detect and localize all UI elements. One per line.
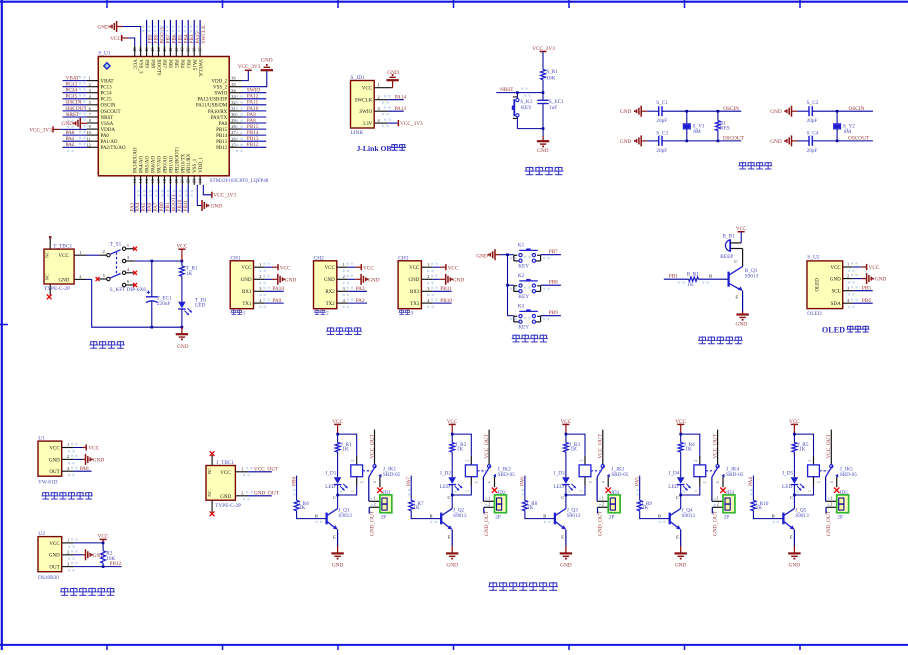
svg-text:2: 2 (79, 274, 81, 279)
power GND at S_U2 pin2 (853, 273, 887, 284)
svg-text:PA2: PA2 (66, 142, 75, 148)
svg-text:SWIO: SWIO (247, 88, 261, 94)
svg-text:VCC: VCC (59, 254, 70, 259)
svg-text:2P: 2P (609, 514, 615, 520)
svg-text:SWIO: SWIO (214, 92, 227, 97)
svg-text:J-Link OB: J-Link OB (357, 144, 392, 153)
svg-text:SWCLK: SWCLK (201, 25, 207, 44)
svg-text:PA8: PA8 (247, 118, 256, 124)
svg-text:29: 29 (231, 118, 235, 123)
svg-text:S_C4: S_C4 (807, 130, 819, 136)
svg-text:T_S1: T_S1 (110, 242, 122, 248)
svg-text:3: 3 (427, 286, 429, 291)
svg-text:K2: K2 (518, 273, 525, 279)
svg-text:VCC: VCC (88, 446, 99, 452)
wire power bottom rail (74, 279, 183, 328)
power VCC_3V3 at S_JD1 pin 4 (382, 119, 423, 128)
relay switch contacts J_JK4 (704, 430, 725, 488)
svg-text:2: 2 (466, 460, 470, 462)
svg-text:PB10: PB10 (440, 298, 452, 304)
wire switch out to VCC rail (135, 260, 184, 263)
wire relay JD5 top node (793, 433, 813, 456)
svg-text:JD4: JD4 (726, 490, 735, 496)
svg-text:LED: LED (554, 484, 564, 490)
svg-text:GND: GND (387, 70, 399, 76)
svg-text:S_C2: S_C2 (807, 100, 819, 106)
title power circuit (90, 341, 97, 343)
svg-text:8M: 8M (693, 129, 701, 135)
svg-text:PB11: PB11 (440, 286, 452, 292)
transistor J_Q4 S9013 (670, 495, 696, 546)
svg-text:12: 12 (87, 142, 91, 147)
svg-text:2: 2 (259, 274, 261, 279)
transistor J_Q2 S9013 (441, 495, 467, 546)
svg-text:1: 1 (67, 442, 69, 447)
svg-text:GND: GND (453, 277, 465, 283)
svg-text:PA10: PA10 (272, 286, 284, 292)
svg-text:LED: LED (325, 484, 335, 490)
ground GND relay JD3 (560, 546, 572, 568)
led J_D3 (554, 470, 577, 495)
transistor J_Q5 S9013 (783, 495, 809, 546)
resistor J_R2 1K (450, 442, 467, 477)
svg-text:GND: GND (368, 277, 380, 283)
svg-text:S_JD1: S_JD1 (351, 75, 366, 81)
svg-text:42: 42 (168, 48, 173, 52)
label serial port 2 (314, 310, 329, 317)
svg-text:TYPE-C-2P: TYPE-C-2P (44, 286, 70, 292)
svg-text:GND_OUT: GND_OUT (598, 510, 604, 536)
svg-text:GND: GND (476, 253, 488, 259)
capacitor T_EC1 220uF electrolytic (146, 261, 172, 327)
wire connector JD5 pin2 GND_OUT (826, 507, 837, 513)
svg-text:OUT: OUT (49, 470, 59, 475)
svg-text:GND: GND (211, 204, 223, 210)
svg-text:VDD_1: VDD_1 (199, 157, 204, 173)
svg-text:3: 3 (89, 88, 91, 93)
power VCC power circuit (176, 244, 187, 262)
wire CH3 pin4 PB10 (433, 298, 453, 304)
svg-text:SWCLK: SWCLK (197, 59, 202, 77)
power GND at CH3 pin2 (433, 274, 465, 285)
svg-text:5: 5 (817, 481, 821, 483)
svg-text:GND: GND (770, 139, 782, 145)
no-connect X at relay J_JK3 NC contact (606, 488, 611, 493)
svg-text:5: 5 (103, 273, 105, 278)
power VCC_3V3 at mcu pin 36 VDD_2 (238, 64, 261, 81)
svg-text:2: 2 (351, 460, 355, 462)
svg-text:DS18B20: DS18B20 (38, 575, 59, 581)
connector S_JD1 J-Link body (351, 75, 393, 136)
svg-text:PA5/AO: PA5/AO (146, 155, 151, 172)
svg-text:S_K1: S_K1 (520, 99, 532, 105)
svg-text:PB8: PB8 (149, 59, 154, 68)
svg-text:VCC_OUT: VCC_OUT (254, 466, 279, 472)
svg-text:PB0/AO: PB0/AO (163, 155, 168, 173)
resistor J_R9 1K base (637, 476, 669, 519)
svg-text:2: 2 (67, 454, 69, 459)
connector CH3 body (398, 255, 438, 308)
svg-text:20pF: 20pF (807, 118, 818, 124)
svg-text:1K: 1K (342, 446, 349, 452)
svg-text:GND: GND (49, 458, 60, 463)
svg-text:GND_OUT: GND_OUT (254, 490, 280, 496)
svg-text:2P: 2P (495, 514, 501, 520)
svg-text:23: 23 (192, 179, 197, 183)
svg-text:1: 1 (808, 490, 812, 492)
svg-text:1: 1 (243, 310, 246, 316)
svg-text:S_U2: S_U2 (807, 255, 820, 261)
svg-text:2P: 2P (724, 514, 730, 520)
led J_D2 (440, 470, 463, 495)
svg-text:B: B (709, 274, 712, 279)
svg-text:YW-81D: YW-81D (38, 479, 58, 485)
svg-text:5: 5 (704, 481, 708, 483)
wire J_TBC1 pin2 GND_OUT (235, 490, 279, 496)
svg-text:GND: GND (97, 25, 109, 31)
svg-text:PA6: PA6 (520, 477, 526, 486)
svg-text:1K: 1K (685, 446, 692, 452)
resistor J_R7 1K base (409, 476, 441, 519)
svg-text:1: 1 (67, 538, 69, 543)
svg-text:SRD-05: SRD-05 (383, 472, 401, 478)
transistor J_Q1 S9013 (327, 495, 353, 546)
resistor R2 10K pull-up (101, 543, 116, 567)
svg-text:PA8: PA8 (80, 466, 89, 472)
svg-text:RES: RES (720, 126, 730, 132)
svg-text:VCC: VCC (448, 265, 459, 271)
svg-text:JD2: JD2 (497, 490, 506, 496)
svg-text:B: B (430, 514, 433, 519)
svg-text:B: B (772, 514, 775, 519)
svg-text:NC: NC (45, 274, 50, 280)
resistor B_R1 1K (678, 272, 728, 289)
svg-text:19: 19 (168, 179, 173, 183)
svg-text:S9013: S9013 (682, 513, 696, 519)
wire U1 pin3 PA8 (74, 466, 92, 472)
svg-text:GND: GND (560, 562, 572, 568)
power GND S_C2 top (770, 106, 797, 117)
power VCC_3V3 reset circuit (532, 46, 555, 69)
power VCC relay JD2 (447, 419, 458, 434)
svg-text:2: 2 (808, 460, 812, 462)
svg-text:1: 1 (830, 495, 832, 500)
svg-text:PC14: PC14 (101, 92, 113, 97)
svg-text:48: 48 (132, 48, 137, 52)
svg-text:3: 3 (259, 286, 261, 291)
svg-text:PB4: PB4 (179, 59, 184, 68)
no-connect X at relay J_JK2 NC contact (492, 488, 497, 493)
svg-text:1: 1 (579, 490, 583, 492)
svg-text:VCC: VCC (98, 533, 109, 539)
svg-text:C: C (790, 495, 793, 500)
wire relay JD3 top node (565, 433, 585, 456)
svg-text:22: 22 (186, 179, 191, 183)
ground GND relay JD4 (675, 546, 687, 568)
relay coil J_JK4 SRD-05 (679, 456, 743, 497)
capacitor S_C1 20pF (647, 100, 687, 124)
svg-text:OSCOUT: OSCOUT (66, 106, 88, 112)
svg-text:OLED: OLED (822, 326, 845, 335)
wire OSCIN (836, 106, 873, 113)
svg-text:GND_OUT: GND_OUT (712, 510, 718, 536)
relay switch contacts J_JK3 (589, 430, 610, 488)
wire relay common to connector JD2 (483, 477, 494, 501)
wire relay JD4 top node (679, 433, 699, 456)
svg-text:43: 43 (162, 48, 167, 52)
svg-text:2: 2 (67, 550, 69, 555)
svg-text:GND: GND (789, 562, 801, 568)
svg-text:5: 5 (475, 481, 479, 483)
power VCC_3V3 at mcu pin 24 VDD_1 (203, 185, 236, 199)
key K2 KEY (508, 273, 541, 300)
svg-text:1: 1 (466, 490, 470, 492)
svg-text:4: 4 (830, 481, 834, 483)
svg-text:1K: 1K (413, 505, 420, 511)
svg-text:OSCIN: OSCIN (849, 106, 865, 112)
connector J_TBC1 TYPE-C body (206, 455, 253, 513)
svg-text:J_TBC1: J_TBC1 (216, 460, 234, 466)
svg-text:4: 4 (601, 481, 605, 483)
svg-text:GND: GND (736, 322, 748, 328)
relay coil J_JK3 SRD-05 (565, 456, 629, 497)
svg-text:VCC_3V3: VCC_3V3 (213, 193, 236, 199)
svg-text:PB2/BOOT1: PB2/BOOT1 (175, 146, 180, 173)
svg-text:1K: 1K (642, 505, 649, 511)
svg-text:OLED: OLED (807, 311, 821, 317)
svg-text:1: 1 (89, 76, 91, 81)
title temperature module (61, 587, 69, 589)
svg-text:1K: 1K (457, 446, 464, 452)
svg-text:45: 45 (150, 48, 155, 52)
resistor R1 RES (716, 110, 730, 142)
svg-text:40: 40 (180, 48, 185, 52)
svg-text:S_KFT DIP-6X6: S_KFT DIP-6X6 (110, 287, 147, 293)
svg-text:VSS_3: VSS_3 (137, 59, 142, 74)
svg-text:1: 1 (378, 83, 380, 88)
svg-text:33: 33 (231, 94, 235, 99)
crystal S_Y2 8M (833, 111, 855, 141)
svg-text:1: 1 (79, 250, 81, 255)
svg-text:S9013: S9013 (795, 513, 809, 519)
svg-text:SDA: SDA (831, 302, 841, 307)
title liquid level module (42, 492, 49, 494)
svg-text:PB7: PB7 (549, 249, 558, 255)
svg-text:RX3: RX3 (410, 290, 420, 295)
wire J_TBC1 pin1 VCC_OUT (235, 466, 279, 472)
svg-text:PB12: PB12 (110, 561, 122, 567)
svg-text:OUT: OUT (49, 566, 59, 571)
svg-text:1: 1 (343, 262, 345, 267)
svg-text:2: 2 (717, 501, 719, 506)
svg-text:TX1: TX1 (242, 302, 252, 307)
svg-text:KEY: KEY (518, 264, 529, 270)
power GND key circuit (476, 249, 507, 260)
svg-text:PA10/RX: PA10/RX (208, 110, 228, 115)
svg-text:B_B1: B_B1 (722, 234, 735, 240)
svg-text:VCC: VCC (220, 471, 231, 476)
key K1 KEY (508, 243, 541, 270)
svg-text:KEY: KEY (521, 105, 532, 111)
svg-text:C: C (561, 495, 564, 500)
svg-text:PB11/RX: PB11/RX (187, 153, 192, 173)
svg-text:1: 1 (717, 495, 719, 500)
resistor J_R10 1K base (751, 476, 783, 519)
svg-text:1: 1 (241, 466, 243, 471)
svg-text:PA6/AO: PA6/AO (152, 155, 157, 172)
svg-text:TX2: TX2 (326, 302, 336, 307)
power GND at CH1 pin2 (265, 274, 297, 285)
svg-text:1: 1 (127, 243, 129, 248)
svg-text:11: 11 (87, 136, 91, 141)
resistor J_R4 1K (678, 442, 695, 477)
wire key K2 to PB8 (510, 279, 561, 290)
svg-text:TX3: TX3 (410, 302, 420, 307)
svg-text:PA2: PA2 (356, 298, 365, 304)
svg-text:K3: K3 (518, 304, 525, 310)
svg-text:1K: 1K (299, 505, 306, 511)
svg-text:U1: U1 (38, 436, 45, 442)
power GND S_C4 bottom (770, 135, 797, 146)
svg-text:20pF: 20pF (656, 118, 667, 124)
crystal S_V1 8M (683, 111, 705, 141)
ground GND power circuit (176, 327, 189, 350)
capacitor S_C4 20pF (798, 130, 838, 154)
svg-text:JD1: JD1 (383, 490, 392, 496)
svg-text:2: 2 (378, 95, 380, 100)
svg-text:PB7: PB7 (161, 59, 166, 68)
svg-text:GND: GND (332, 562, 344, 568)
wire connector JD1 pin2 GND_OUT (369, 507, 380, 513)
svg-text:PA12/USB/DP: PA12/USB/DP (197, 98, 227, 103)
svg-text:2: 2 (427, 274, 429, 279)
resistor J_R5 1K (792, 442, 809, 477)
capacitor S_C2 20pF (798, 100, 838, 124)
svg-text:OSCIN: OSCIN (101, 104, 116, 109)
capacitor S_EC1 1uF (537, 93, 564, 129)
no-connect X at relay J_JK4 NC contact (720, 488, 725, 493)
svg-text:GND: GND (261, 58, 273, 64)
power VCC relay JD5 (789, 419, 800, 434)
svg-text:PC14: PC14 (66, 88, 78, 94)
svg-text:1: 1 (351, 490, 355, 492)
svg-text:VCC: VCC (49, 446, 60, 451)
wire S_U2 pin4 PB6 (853, 298, 873, 304)
svg-text:VCC: VCC (241, 266, 252, 271)
svg-text:PB12: PB12 (216, 146, 228, 151)
title key circuit (512, 334, 519, 336)
svg-text:VCC_3V3: VCC_3V3 (238, 64, 261, 70)
svg-text:39: 39 (186, 48, 191, 52)
svg-text:32: 32 (231, 100, 235, 105)
svg-text:2: 2 (374, 501, 376, 506)
wire CH2 pin3 PA3 (348, 286, 367, 292)
svg-text:15: 15 (144, 179, 149, 183)
svg-text:1K: 1K (687, 282, 694, 288)
svg-text:LED: LED (195, 303, 205, 309)
power VCC relay JD1 (332, 419, 343, 434)
svg-text:21: 21 (180, 179, 185, 183)
svg-text:T_TBC1: T_TBC1 (53, 244, 72, 250)
svg-text:1K: 1K (571, 446, 578, 452)
svg-text:S9013: S9013 (338, 513, 352, 519)
svg-text:PA5: PA5 (634, 477, 640, 486)
svg-text:GND_OUT: GND_OUT (826, 510, 832, 536)
power VCC at U2 pin1 (74, 533, 109, 544)
wire relay JD1 top node (336, 433, 356, 456)
led J_D4 (668, 470, 691, 495)
svg-text:5: 5 (589, 481, 593, 483)
svg-text:S_U1: S_U1 (98, 51, 111, 57)
svg-text:KEY: KEY (518, 294, 529, 300)
title serial circuit (327, 327, 334, 329)
wire PB1 input (664, 274, 689, 280)
power VCC_3V3 at mcu pin 9 VDDA (29, 126, 87, 133)
svg-text:VCC_3V3: VCC_3V3 (29, 127, 52, 133)
svg-text:PB6: PB6 (862, 298, 871, 304)
svg-text:PA7: PA7 (406, 477, 412, 486)
svg-text:PA4/AO: PA4/AO (140, 155, 145, 172)
svg-text:GND_OUT: GND_OUT (369, 510, 375, 536)
svg-text:GND: GND (770, 109, 782, 115)
svg-text:PA1: PA1 (66, 136, 75, 142)
wire OSCOUT (836, 136, 873, 143)
relay switch contacts J_JK2 (475, 430, 496, 488)
svg-text:VSS_1: VSS_1 (193, 158, 198, 173)
connector CH1 body (230, 255, 270, 308)
svg-text:C: C (734, 259, 737, 264)
svg-text:PA7/AO: PA7/AO (158, 155, 163, 172)
svg-text:2: 2 (326, 310, 329, 316)
svg-text:4: 4 (716, 481, 720, 483)
no-connect X at relay J_JK5 NC contact (834, 488, 839, 493)
svg-text:LED: LED (668, 484, 678, 490)
svg-text:NC: NC (207, 468, 212, 474)
svg-text:VCC: VCC (132, 59, 137, 70)
svg-text:PB5: PB5 (862, 285, 871, 291)
svg-text:E: E (676, 534, 679, 539)
wire CH3 pin3 PB11 (433, 286, 452, 292)
svg-text:SRD-05: SRD-05 (498, 472, 516, 478)
svg-text:2P: 2P (837, 514, 843, 520)
svg-text:PB8: PB8 (549, 279, 558, 285)
svg-text:PA14: PA14 (395, 94, 407, 100)
svg-text:1: 1 (847, 262, 849, 267)
svg-text:PA0: PA0 (101, 134, 110, 139)
svg-text:1K: 1K (527, 505, 534, 511)
svg-text:S9013: S9013 (567, 513, 581, 519)
svg-text:E: E (561, 534, 564, 539)
svg-text:8: 8 (89, 118, 91, 123)
svg-text:E: E (448, 534, 451, 539)
svg-text:3: 3 (127, 255, 129, 260)
transistor B_Q1 S9013 (729, 249, 759, 312)
wire relay JD2 top node (451, 433, 471, 456)
svg-text:9: 9 (89, 124, 91, 129)
svg-text:3: 3 (378, 106, 380, 111)
svg-text:PA4: PA4 (748, 477, 754, 486)
connector S_U2 OLED body (807, 255, 858, 317)
resistor S_R1 10K (541, 69, 559, 82)
svg-text:B: B (315, 514, 318, 519)
power GND at mcu top pin 47 (97, 21, 140, 46)
title OLED display (822, 326, 870, 335)
ground GND relay JD1 (331, 546, 343, 568)
svg-text:PB0: PB0 (291, 477, 297, 486)
svg-text:GND: GND (324, 278, 335, 283)
svg-text:3: 3 (67, 466, 69, 471)
wire key K3 to PB9 (510, 310, 561, 321)
